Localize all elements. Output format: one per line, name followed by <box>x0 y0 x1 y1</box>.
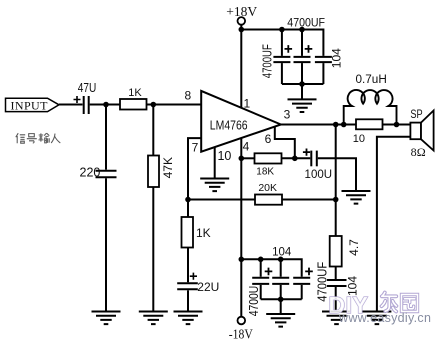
capacitor C7 100U <box>310 151 312 167</box>
ground (pin 10) <box>200 179 229 192</box>
wire pin4 node to R5 <box>241 157 254 159</box>
-18V terminal <box>238 317 246 325</box>
wire C2 to ground <box>105 178 107 311</box>
capacitor C2 220 <box>96 170 117 172</box>
svg-text:7: 7 <box>192 140 199 154</box>
node A <box>103 102 109 108</box>
svg-text:47U: 47U <box>78 80 97 95</box>
wire C8 to ground <box>187 290 189 311</box>
svg-text:22U: 22U <box>197 280 219 294</box>
node rail C10 <box>278 257 284 263</box>
svg-text:4700UF: 4700UF <box>315 261 329 301</box>
svg-text:-18V: -18V <box>229 328 253 343</box>
capacitor C11 4700UF (right) <box>293 277 310 279</box>
svg-text:1K: 1K <box>196 226 211 240</box>
svg-text:20K: 20K <box>258 182 277 194</box>
node rail C9 <box>258 257 264 263</box>
svg-text:SP: SP <box>410 109 423 121</box>
inductor L1 0.7uH <box>344 90 397 125</box>
svg-text:+18V: +18V <box>226 5 257 20</box>
svg-text:3: 3 <box>284 107 291 121</box>
pin 10 wire <box>214 147 216 179</box>
capacitor C4 4700UF (middle) <box>301 30 303 56</box>
speaker SP <box>410 123 421 140</box>
label 信号输入 <box>16 133 61 143</box>
svg-text:100U: 100U <box>305 169 333 181</box>
svg-text:INPUT: INPUT <box>11 98 49 112</box>
pin 3 output wire <box>281 124 411 126</box>
svg-text:220: 220 <box>80 166 101 180</box>
wire R2 to ground <box>152 187 154 312</box>
node rail C3 <box>279 27 285 33</box>
svg-text:10: 10 <box>217 149 231 163</box>
node output L left <box>341 122 347 128</box>
node R5-C7 <box>292 156 298 162</box>
svg-text:8Ω: 8Ω <box>411 145 426 159</box>
svg-text:104: 104 <box>272 247 292 259</box>
node +V rail <box>239 27 245 33</box>
svg-text:18K: 18K <box>256 167 274 178</box>
node rail C4 <box>299 27 305 33</box>
wire input to C1 <box>59 104 83 106</box>
ground (speaker) <box>362 312 391 325</box>
ground (top bank) <box>301 84 303 99</box>
resistor R2 47K <box>148 156 159 188</box>
wire +V rail <box>241 30 323 56</box>
node B <box>151 102 157 108</box>
svg-text:0.7uH: 0.7uH <box>356 74 387 86</box>
ground (C7) <box>342 191 371 204</box>
watermark char le <box>382 293 397 312</box>
svg-text:1: 1 <box>243 97 250 111</box>
node bank bottom <box>299 81 305 87</box>
+18V terminal <box>238 17 246 25</box>
ground (zobel) <box>322 312 351 325</box>
wire C6 to ground <box>335 287 337 312</box>
node output L right <box>394 122 400 128</box>
node bank bottom <box>278 297 284 303</box>
wire C1 to R1 <box>90 104 120 106</box>
svg-text:6: 6 <box>265 132 272 146</box>
pin 1 wire <box>240 30 242 108</box>
node pin7 <box>185 197 191 203</box>
svg-text:10: 10 <box>353 133 365 145</box>
wire R5 to C7 <box>282 157 311 159</box>
wire R1 to pin 8 <box>147 104 202 106</box>
svg-text:47K: 47K <box>161 157 175 178</box>
resistor R3 10 <box>356 119 383 129</box>
svg-text:104: 104 <box>330 48 344 68</box>
wire node A down to C2 <box>105 105 107 170</box>
wire zobel down <box>335 125 337 237</box>
wire pin7 node to R6 <box>188 199 255 201</box>
wire node B down to R2 <box>152 105 154 156</box>
node output zobel <box>333 122 339 128</box>
svg-text:4.7: 4.7 <box>347 239 361 256</box>
resistor R4 4.7 <box>330 236 342 267</box>
wire R6 to zobel node <box>282 199 336 201</box>
watermark char yuan <box>402 295 418 312</box>
capacitor C3 4700UF (left) <box>281 30 283 56</box>
pin 7 wire <box>188 138 201 217</box>
resistor R6 20K <box>255 195 282 205</box>
wire bottom bank <box>261 298 302 300</box>
resistor R7 1K <box>182 217 194 248</box>
capacitor C1 47U <box>83 96 85 114</box>
input terminal INPUT <box>6 98 60 111</box>
capacitor C6 104 <box>327 279 347 281</box>
wire top bank bottom <box>282 83 324 85</box>
ground (under R2) <box>139 312 168 325</box>
capacitor C8 22U <box>177 282 198 284</box>
svg-text:4700UF: 4700UF <box>287 15 325 29</box>
wire speaker return <box>377 137 411 312</box>
wire R7 to C8 <box>187 248 189 283</box>
svg-text:1K: 1K <box>128 87 142 99</box>
capacitor C5 104 (right) <box>315 56 332 58</box>
svg-text:4: 4 <box>243 140 250 154</box>
svg-text:8: 8 <box>184 89 191 103</box>
wire R4 to C6 <box>335 267 337 280</box>
ground (under C2) <box>92 312 121 325</box>
wire C7 to ground <box>318 158 356 191</box>
node -V rail <box>239 257 245 263</box>
node pin4-R5 <box>239 156 245 162</box>
capacitor C10 104 (middle) <box>280 259 282 276</box>
svg-text:4700U: 4700U <box>247 286 261 317</box>
capacitor C9 4700U (left) <box>260 259 262 276</box>
svg-text:www.easydiy.cn: www.easydiy.cn <box>338 311 431 325</box>
ground (C8) <box>174 312 203 325</box>
ground (bottom bank) <box>280 299 282 314</box>
svg-text:LM4766: LM4766 <box>210 117 248 132</box>
op-amp U1 LM4766 <box>201 91 281 152</box>
resistor R5 18K <box>255 153 282 163</box>
resistor R1 1K <box>120 99 147 110</box>
svg-text:4700UF: 4700UF <box>261 44 275 78</box>
pin 6 wire <box>275 126 295 158</box>
node zobel 20K <box>333 197 339 203</box>
wire -V rail <box>241 259 301 276</box>
pin 4 wire <box>240 138 242 316</box>
